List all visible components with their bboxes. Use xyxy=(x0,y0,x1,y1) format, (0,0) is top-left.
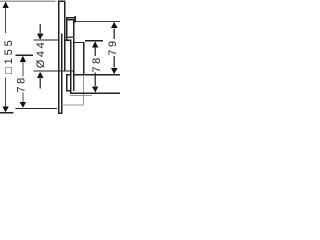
node plate: front face vertical xyxy=(58,1,59,114)
node box: body top line xyxy=(67,19,75,20)
dim 155: bottom arrow xyxy=(2,106,8,112)
node box: flange top line xyxy=(66,17,76,18)
dim 155: upper stem xyxy=(5,2,6,33)
wire: bottom line y93.3 from step to right (78R bottom ref) xyxy=(70,93,120,94)
dim 155: top arrow xyxy=(2,2,8,8)
dim 78 right: up arrow xyxy=(92,41,98,47)
node cartridge: bottom gray line xyxy=(62,104,84,105)
node small rect: top edge xyxy=(66,74,71,75)
node small rect: bottom edge xyxy=(66,90,71,91)
dim 78 left: top tick xyxy=(15,55,33,56)
dim 44: bottom tick xyxy=(33,70,74,71)
dim 44: down arrow xyxy=(37,34,43,40)
node plate: bottom cap xyxy=(58,113,63,114)
dim 44: top tick xyxy=(33,40,58,41)
node cartridge: right edge dark xyxy=(83,42,84,75)
node plate: inner vertical xyxy=(61,34,62,114)
node handle: top gray line xyxy=(65,37,74,38)
dim 78 right: down arrow xyxy=(92,86,98,92)
dim 44: up arrow xyxy=(37,72,43,78)
dim 79 right: bottom tick xyxy=(73,74,120,75)
svg-text:Ø44: Ø44 xyxy=(35,40,47,69)
node small rect: left edge xyxy=(66,74,67,92)
dim 78 left: stem upper xyxy=(22,62,23,77)
dim 78 left: stem lower xyxy=(22,93,23,103)
svg-text:78: 78 xyxy=(91,55,103,72)
node handle: back edge xyxy=(70,40,71,94)
node plate: top edge xyxy=(58,1,65,2)
dim 155: lower stem xyxy=(5,77,6,106)
node cartridge: right edge gray xyxy=(83,75,84,106)
node box: step vertical xyxy=(74,16,76,22)
node cartridge: top edge xyxy=(73,42,84,43)
svg-text:79: 79 xyxy=(107,38,119,55)
dim 78 right: stem upper xyxy=(95,47,96,55)
node handle: top edge xyxy=(65,40,71,41)
dim 44: lower stem xyxy=(40,78,41,89)
wire: bottom extension of 78 left xyxy=(16,108,57,109)
node box: right edge xyxy=(73,20,74,91)
dim 78 left: down arrow xyxy=(20,102,26,108)
svg-text:□155: □155 xyxy=(3,37,15,74)
wire: gray line under bottom band xyxy=(70,95,93,96)
dim 79 right: up arrow xyxy=(111,22,118,28)
dim 78 right: top tick xyxy=(85,40,103,41)
node plate: back face vertical xyxy=(64,1,66,71)
wire: bottom extension of 155 xyxy=(0,112,14,113)
node box: left edge xyxy=(66,17,67,40)
dim 79 right: stem upper xyxy=(114,28,115,38)
wire: long line to 79 dim top xyxy=(76,21,120,22)
dim 79 right: stem lower xyxy=(114,56,115,68)
dim 78 left: up arrow xyxy=(20,56,26,62)
wire: top extension line of 155 dim xyxy=(0,1,55,2)
dim 79 right: down arrow xyxy=(111,68,117,74)
svg-text:78: 78 xyxy=(16,75,28,92)
dim 78 right: stem lower xyxy=(95,72,96,86)
dim 44: upper stem xyxy=(40,24,41,33)
